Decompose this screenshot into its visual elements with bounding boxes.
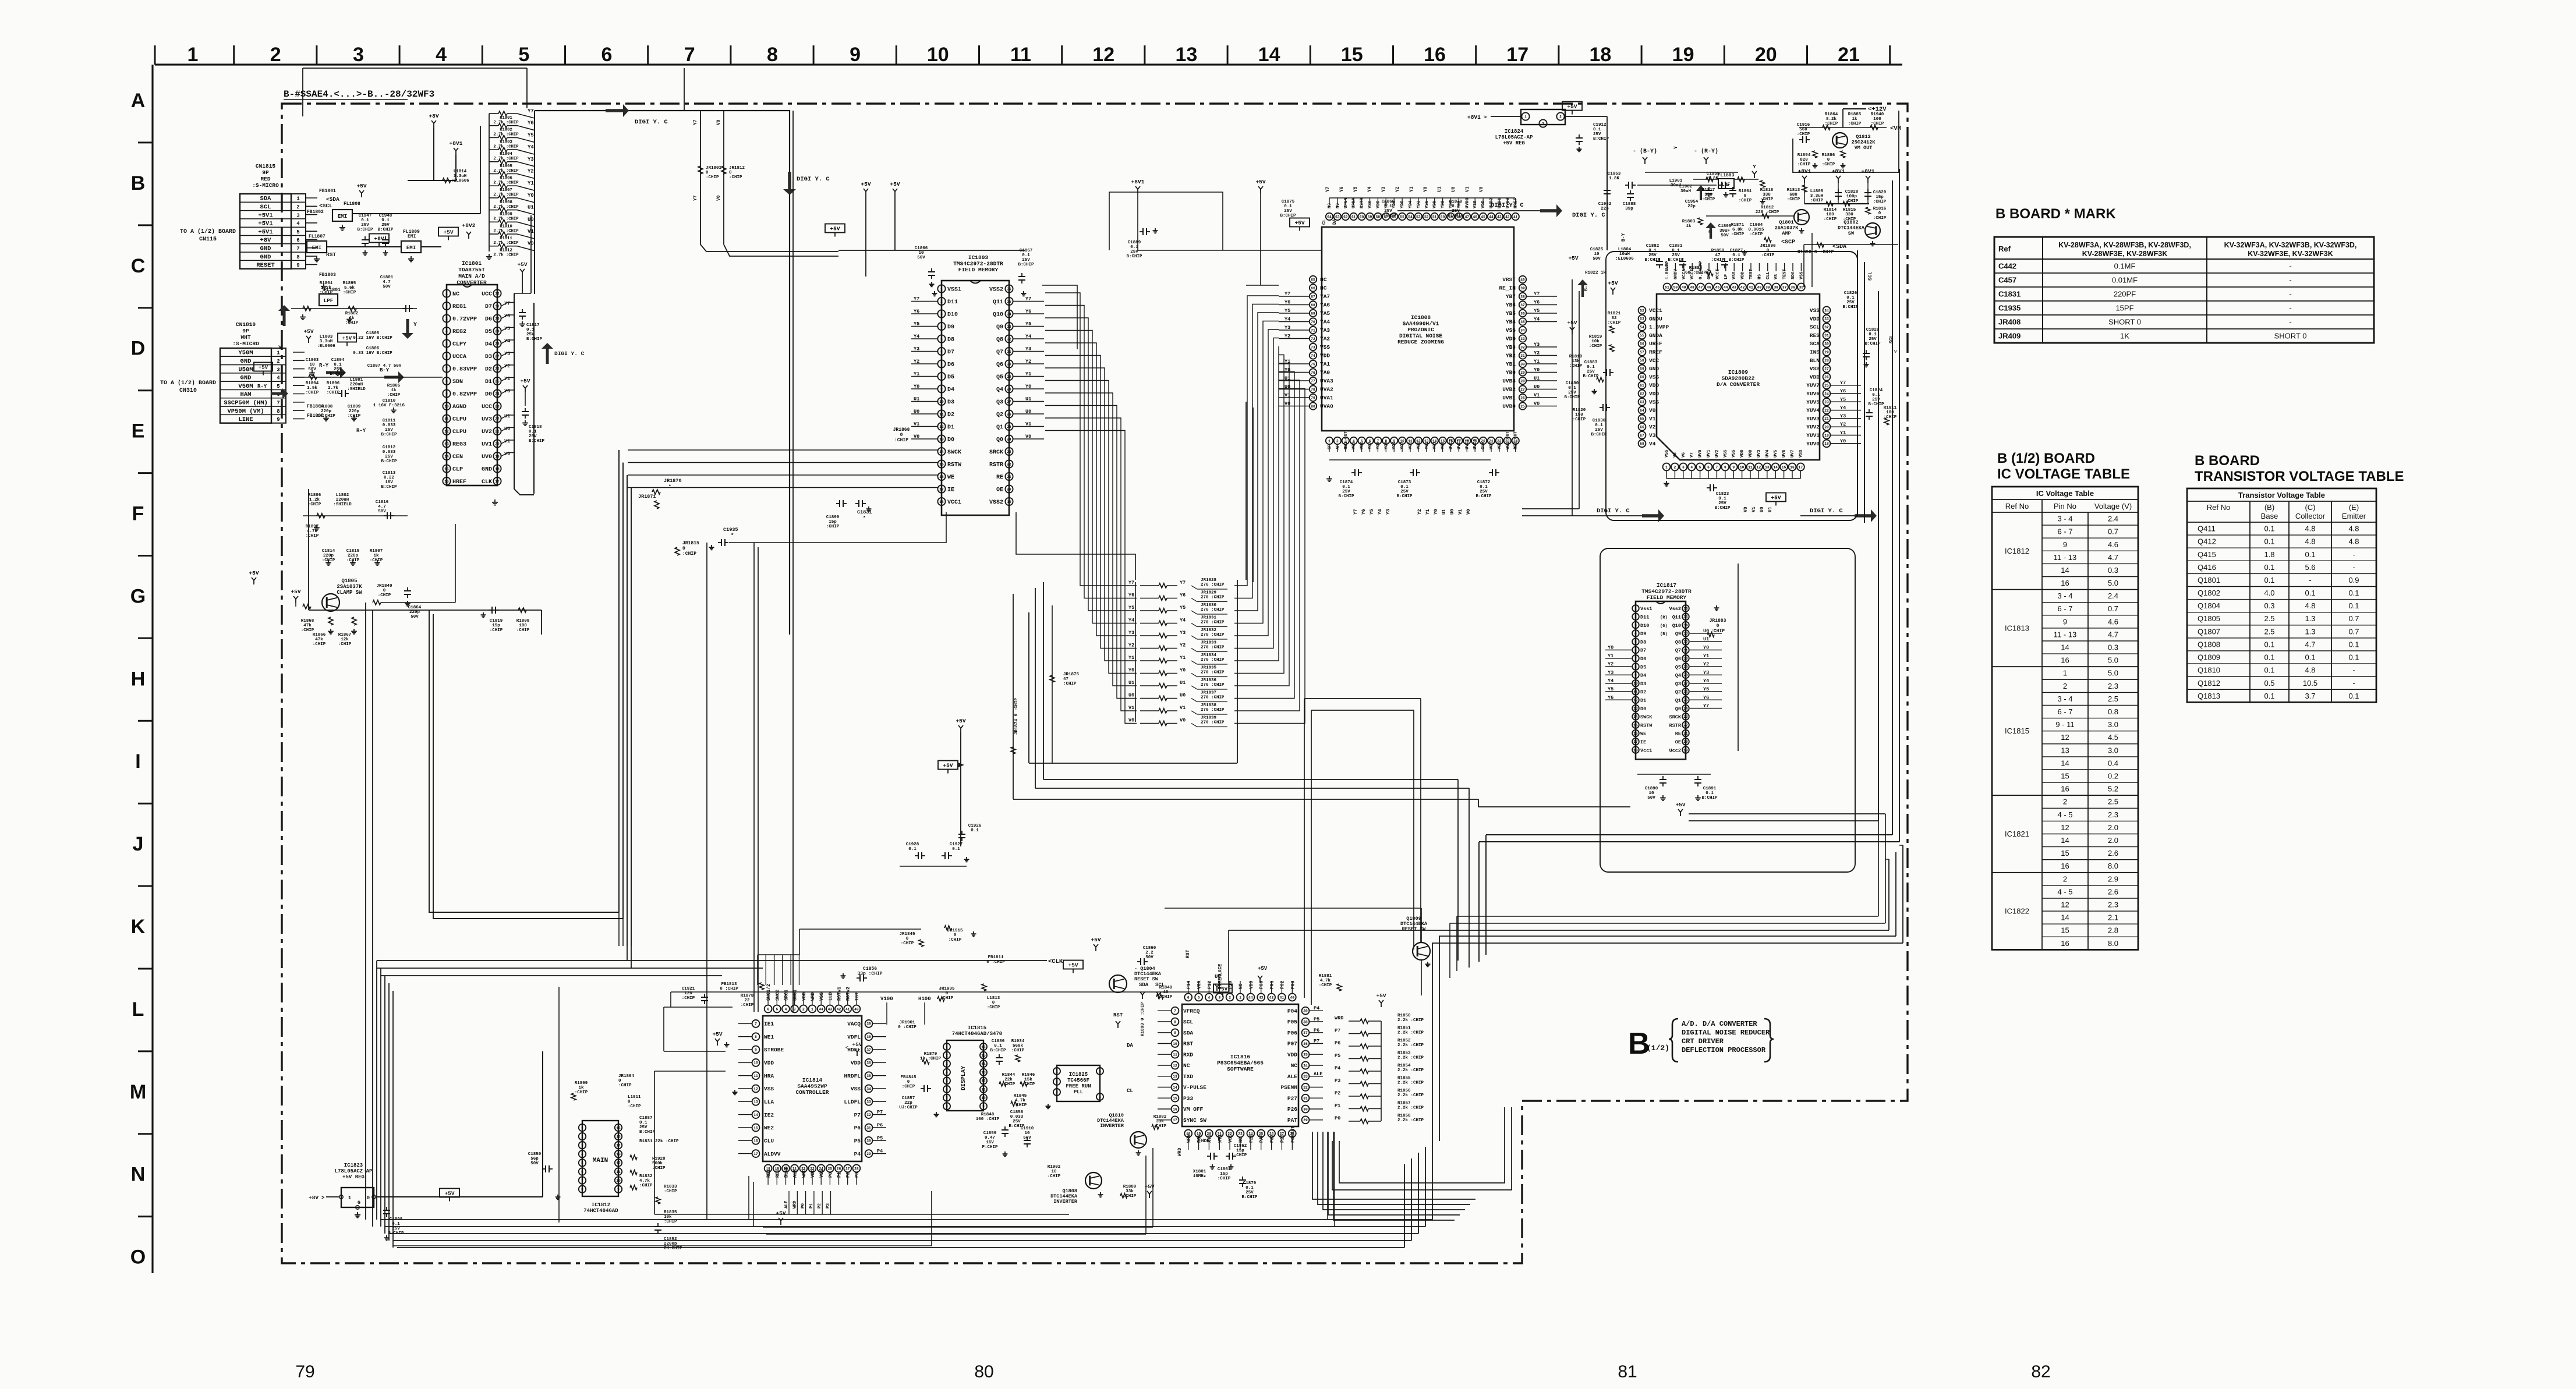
svg-text:R1808: R1808 xyxy=(516,619,530,623)
svg-text:P20: P20 xyxy=(1249,1134,1254,1143)
svg-text:0.72VPP: 0.72VPP xyxy=(452,317,477,323)
svg-text:80: 80 xyxy=(1311,405,1315,409)
svg-text:10: 10 xyxy=(939,400,944,404)
svg-text:33: 33 xyxy=(1303,1075,1308,1079)
svg-text:R1804: R1804 xyxy=(306,381,319,386)
svg-text:4: 4 xyxy=(445,329,448,334)
svg-text:FIELD MEMORY: FIELD MEMORY xyxy=(958,267,999,273)
svg-text:2: 2 xyxy=(946,1054,948,1058)
svg-text:64: 64 xyxy=(1640,409,1644,413)
svg-text:13: 13 xyxy=(753,1100,758,1104)
svg-text:C1801: C1801 xyxy=(380,275,394,280)
svg-text:P4: P4 xyxy=(877,1149,883,1154)
svg-text:4: 4 xyxy=(785,1007,787,1011)
svg-text:Y1: Y1 xyxy=(1608,653,1613,659)
svg-text:SCA: SCA xyxy=(1810,341,1820,347)
svg-text:24: 24 xyxy=(495,392,500,396)
svg-text:32: 32 xyxy=(1683,640,1688,644)
svg-text:Y4: Y4 xyxy=(1180,618,1186,623)
svg-text:Y0: Y0 xyxy=(1180,668,1186,674)
svg-text:11 - 13: 11 - 13 xyxy=(2054,630,2077,639)
svg-text:10: 10 xyxy=(1648,791,1654,796)
svg-text:28: 28 xyxy=(1007,387,1011,391)
svg-text:LINE: LINE xyxy=(238,416,253,423)
svg-text:40: 40 xyxy=(854,1007,859,1011)
svg-text:R1855: R1855 xyxy=(1397,1076,1411,1081)
svg-text:C1825: C1825 xyxy=(1590,247,1604,252)
svg-text:2: 2 xyxy=(1336,439,1339,443)
svg-text:VSS: VSS xyxy=(1352,441,1357,449)
svg-text:C1874: C1874 xyxy=(1340,480,1353,485)
svg-text:7: 7 xyxy=(1174,1009,1176,1014)
svg-text:C1889: C1889 xyxy=(1128,240,1141,245)
svg-text:D2: D2 xyxy=(1640,689,1646,695)
svg-text:P6: P6 xyxy=(854,1125,861,1131)
svg-text:47: 47 xyxy=(1465,215,1470,219)
svg-text::EL0606: :EL0606 xyxy=(451,179,469,183)
svg-text:13: 13 xyxy=(1173,1075,1177,1079)
svg-text::CHIP: :CHIP xyxy=(308,502,321,507)
svg-text:22: 22 xyxy=(1824,409,1829,413)
svg-text:U0: U0 xyxy=(1450,509,1455,515)
svg-text:12: 12 xyxy=(981,1079,986,1083)
svg-text:58: 58 xyxy=(1376,215,1381,219)
svg-text:CLPU: CLPU xyxy=(452,417,466,423)
svg-text:IC1825: IC1825 xyxy=(1069,1072,1088,1078)
svg-text:14: 14 xyxy=(2061,759,2069,767)
svg-text:P01: P01 xyxy=(1270,980,1275,989)
svg-text:C1808: C1808 xyxy=(320,405,333,409)
svg-text:Y0: Y0 xyxy=(1840,438,1846,444)
svg-text:U1: U1 xyxy=(1442,509,1447,515)
svg-text:DEFLECTION PROCESSOR: DEFLECTION PROCESSOR xyxy=(1682,1046,1766,1054)
svg-text:14: 14 xyxy=(753,1113,758,1117)
svg-text:2: 2 xyxy=(296,204,299,210)
svg-text:0.1: 0.1 xyxy=(2348,653,2359,662)
svg-text:51: 51 xyxy=(1432,215,1437,219)
svg-text:15: 15 xyxy=(1173,1097,1177,1101)
svg-text:Transistor Voltage Table: Transistor Voltage Table xyxy=(2238,491,2325,499)
svg-text:220p: 220p xyxy=(323,554,334,558)
svg-text:2.7k :CHIP: 2.7k :CHIP xyxy=(493,205,519,210)
svg-text:R1861: R1861 xyxy=(1739,189,1752,194)
svg-text:14: 14 xyxy=(2061,566,2069,575)
svg-text:7: 7 xyxy=(940,362,943,366)
svg-text:25V: 25V xyxy=(1718,501,1726,506)
svg-text:4.6: 4.6 xyxy=(2108,617,2118,626)
svg-text:0: 0 xyxy=(906,937,909,941)
svg-text:SSCP50M (HM): SSCP50M (HM) xyxy=(224,400,268,407)
svg-text:3: 3 xyxy=(581,1144,583,1148)
svg-text:UPCN: UPCN xyxy=(1344,198,1349,208)
svg-text:6 - 7: 6 - 7 xyxy=(2057,604,2072,613)
wire CLK bottom run xyxy=(377,961,1047,976)
svg-text:31: 31 xyxy=(495,304,500,309)
svg-text:C1954: C1954 xyxy=(1685,200,1699,204)
amplifier cluster Q1801 Q1802 right xyxy=(1693,164,1887,310)
svg-text:UVA0: UVA0 xyxy=(1320,403,1333,410)
svg-text:C1912: C1912 xyxy=(1593,123,1607,127)
svg-text:31: 31 xyxy=(1303,1097,1308,1101)
IC IC1815 74HCT4046AD DISPLAY xyxy=(899,984,1035,1156)
svg-text:+5V REG: +5V REG xyxy=(342,1174,365,1180)
svg-text:B:CHIP: B:CHIP xyxy=(1728,258,1745,263)
svg-text:L: L xyxy=(132,998,144,1021)
svg-text:52: 52 xyxy=(1424,215,1429,219)
svg-text:C1826: C1826 xyxy=(1844,291,1857,296)
svg-text:IE: IE xyxy=(1640,739,1646,745)
svg-text:Q1801: Q1801 xyxy=(2198,576,2220,584)
svg-text:0.1: 0.1 xyxy=(2305,550,2315,559)
svg-text:50V: 50V xyxy=(1647,796,1655,800)
svg-text:22: 22 xyxy=(1683,724,1688,728)
svg-text:IC1812: IC1812 xyxy=(2005,547,2029,555)
svg-text:1 16V F:3216: 1 16V F:3216 xyxy=(373,403,405,408)
svg-text:(E): (E) xyxy=(2349,503,2359,512)
svg-text:25V: 25V xyxy=(1593,132,1601,137)
svg-text:82: 82 xyxy=(1611,316,1617,321)
svg-text:C1890: C1890 xyxy=(1645,786,1658,791)
svg-text:9: 9 xyxy=(277,417,279,423)
svg-text:25: 25 xyxy=(828,1167,833,1171)
svg-text:R1850: R1850 xyxy=(1397,1014,1411,1018)
svg-text:<SCL: <SCL xyxy=(319,203,332,209)
svg-text:73: 73 xyxy=(1311,345,1315,349)
svg-text:RES: RES xyxy=(1810,332,1820,339)
svg-text:R1864: R1864 xyxy=(1825,112,1838,117)
wire harness controller to display runs xyxy=(654,992,1229,1234)
svg-text:Ref: Ref xyxy=(1998,245,2011,253)
svg-text:2.7k: 2.7k xyxy=(328,386,339,391)
svg-text:YA2: YA2 xyxy=(1320,336,1330,342)
svg-text:11: 11 xyxy=(1748,465,1753,469)
svg-text:15: 15 xyxy=(981,1054,986,1058)
svg-text:(B): (B) xyxy=(2264,503,2274,512)
svg-text:C1928: C1928 xyxy=(906,842,919,847)
svg-text:15k: 15k xyxy=(1024,1078,1032,1082)
svg-text:VDD: VDD xyxy=(1741,271,1746,279)
svg-text:+5V: +5V xyxy=(712,1031,722,1037)
svg-text:49: 49 xyxy=(1682,285,1686,289)
svg-text:37: 37 xyxy=(1782,285,1787,289)
filter cluster B-Y R-Y top right xyxy=(1568,146,1738,261)
svg-text:0.2: 0.2 xyxy=(2108,772,2118,781)
svg-text:WRN: WRN xyxy=(1187,1134,1192,1143)
IC IC1825 TC4566F free run PLL xyxy=(1046,1065,1104,1108)
svg-text:+5V: +5V xyxy=(830,226,840,232)
svg-text:16: 16 xyxy=(2061,579,2069,587)
svg-text:0: 0 xyxy=(729,171,732,175)
svg-text:UVB2: UVB2 xyxy=(1502,387,1516,393)
svg-text:C1926: C1926 xyxy=(968,824,982,828)
svg-text:25V: 25V xyxy=(1587,370,1595,374)
svg-text:59: 59 xyxy=(1640,367,1644,371)
svg-text:1.5k: 1.5k xyxy=(307,386,318,391)
svg-text:C1935: C1935 xyxy=(1998,304,2021,313)
svg-text:2: 2 xyxy=(277,359,279,364)
wire DIGI Y.C into IC1808 xyxy=(1397,202,1562,217)
wire harness center long verticals xyxy=(707,111,793,1220)
svg-text::CHIP: :CHIP xyxy=(345,321,359,325)
wire IC1814 bottom fanout xyxy=(393,1191,932,1246)
svg-text::CHIP: :CHIP xyxy=(706,175,719,180)
svg-text:44: 44 xyxy=(1489,215,1494,219)
svg-text:G: G xyxy=(358,1200,360,1206)
svg-text:1.05VPP: 1.05VPP xyxy=(1665,261,1670,279)
svg-text:+5V: +5V xyxy=(852,1041,862,1048)
svg-text:0.7: 0.7 xyxy=(2348,627,2359,636)
svg-text:7: 7 xyxy=(581,1179,583,1183)
svg-text:5.2: 5.2 xyxy=(2108,785,2118,793)
svg-text:B BOARD * MARK: B BOARD * MARK xyxy=(1995,206,2116,222)
svg-text::CHIP: :CHIP xyxy=(618,1083,632,1088)
svg-text:HREF: HREF xyxy=(1514,197,1519,208)
svg-text:2.7k :CHIP: 2.7k :CHIP xyxy=(493,121,519,125)
svg-text:17: 17 xyxy=(1799,465,1803,469)
svg-text:820: 820 xyxy=(1800,158,1808,162)
svg-text:G: G xyxy=(130,585,146,607)
svg-text:Base: Base xyxy=(2261,512,2278,520)
svg-text:Y3: Y3 xyxy=(1386,509,1391,515)
svg-text:SAA4952WP: SAA4952WP xyxy=(797,1083,827,1090)
svg-text:P04: P04 xyxy=(1287,1008,1297,1015)
svg-text:11: 11 xyxy=(753,1074,758,1078)
svg-text:2.2k :CHIP: 2.2k :CHIP xyxy=(1397,1056,1424,1061)
svg-text:YD2: YD2 xyxy=(1441,200,1446,208)
svg-text:CLK: CLK xyxy=(1481,441,1486,449)
svg-text:MAIN A/D: MAIN A/D xyxy=(458,273,485,279)
svg-text:HRA: HRA xyxy=(764,1073,774,1079)
svg-text:15p: 15p xyxy=(1236,1149,1244,1153)
svg-text:IE1: IE1 xyxy=(764,1021,774,1027)
svg-text:C1828: C1828 xyxy=(1845,190,1859,194)
svg-text:VDD: VDD xyxy=(1740,449,1745,458)
svg-text:UVD0: UVD0 xyxy=(1506,197,1510,208)
svg-text:0.1: 0.1 xyxy=(2305,653,2315,662)
svg-text:41: 41 xyxy=(1513,215,1518,219)
svg-text:JR1870: JR1870 xyxy=(664,478,682,484)
svg-text:2SA1037K: 2SA1037K xyxy=(337,584,362,590)
svg-text:Y0: Y0 xyxy=(528,193,534,199)
svg-text:Q1812: Q1812 xyxy=(1856,134,1871,140)
svg-text:39p: 39p xyxy=(1625,207,1633,211)
svg-text:Y0: Y0 xyxy=(1423,186,1428,192)
svg-text:PAP: PAP xyxy=(1259,1134,1265,1143)
svg-text:R1816: R1816 xyxy=(1873,207,1887,211)
svg-text:48: 48 xyxy=(1690,285,1694,289)
svg-text:JR1890: JR1890 xyxy=(1760,244,1776,249)
svg-text:53: 53 xyxy=(1640,317,1644,321)
svg-text:0.1: 0.1 xyxy=(2264,576,2274,584)
svg-text:C1899: C1899 xyxy=(826,515,840,520)
svg-text:D6: D6 xyxy=(947,362,954,368)
svg-text:Y3: Y3 xyxy=(1608,669,1613,675)
svg-text:HRDFL: HRDFL xyxy=(844,1073,861,1079)
svg-text:D0: D0 xyxy=(1640,706,1646,712)
ruler top border xyxy=(155,44,1902,66)
svg-text:Q3: Q3 xyxy=(1675,681,1681,687)
svg-text:P7: P7 xyxy=(1335,1028,1340,1034)
svg-text::CHIP: :CHIP xyxy=(682,996,695,1001)
svg-text:P0: P0 xyxy=(828,1172,833,1178)
svg-text:2.5: 2.5 xyxy=(2264,614,2274,623)
wire loop field memory top right xyxy=(1042,192,1223,349)
svg-text:P0: P0 xyxy=(1335,1115,1340,1121)
svg-text:H: H xyxy=(131,668,146,690)
svg-text:17: 17 xyxy=(1173,1118,1177,1122)
svg-text:YUV6: YUV6 xyxy=(1806,391,1820,397)
svg-text:0.0015: 0.0015 xyxy=(1748,228,1764,232)
svg-text:39uH: 39uH xyxy=(1680,189,1691,194)
svg-text:A/D. D/A CONVERTER: A/D. D/A CONVERTER xyxy=(1682,1020,1757,1028)
svg-text:7: 7 xyxy=(1634,657,1637,661)
svg-text:C1927: C1927 xyxy=(950,842,963,847)
svg-text:UC: UC xyxy=(1215,974,1221,980)
svg-text:3.7: 3.7 xyxy=(2305,692,2315,700)
svg-text:2.3: 2.3 xyxy=(2108,810,2118,819)
svg-text:WE1: WE1 xyxy=(764,1034,774,1040)
svg-text:11: 11 xyxy=(1010,44,1031,66)
svg-text:39: 39 xyxy=(1303,1009,1308,1014)
svg-text:Y3: Y3 xyxy=(1180,630,1186,636)
svg-text:0.3: 0.3 xyxy=(2108,643,2118,652)
svg-text:3: 3 xyxy=(940,312,943,316)
svg-text::CHIP: :CHIP xyxy=(343,290,356,295)
svg-text:25V: 25V xyxy=(1869,337,1877,342)
svg-text:0.7: 0.7 xyxy=(2108,527,2118,536)
svg-text:JR1812: JR1812 xyxy=(729,166,745,171)
svg-text:Q0: Q0 xyxy=(1675,706,1681,712)
svg-text:+5V: +5V xyxy=(303,328,313,335)
wire top bus link xyxy=(684,68,685,111)
svg-text:B-#SSAE4.<...>-B..-28/32WF3: B-#SSAE4.<...>-B..-28/32WF3 xyxy=(284,89,434,100)
svg-text:Q1801: Q1801 xyxy=(1779,219,1794,225)
svg-text:Y6: Y6 xyxy=(1128,593,1134,598)
svg-text:YB2: YB2 xyxy=(1506,353,1516,359)
svg-text:VFREQ: VFREQ xyxy=(1183,1008,1200,1015)
svg-text:GND: GND xyxy=(240,375,252,382)
svg-text:34: 34 xyxy=(1007,312,1011,316)
svg-text:0: 0 xyxy=(1744,194,1747,199)
svg-text:WE2_OUT: WE2_OUT xyxy=(1506,431,1510,449)
svg-text:17: 17 xyxy=(939,487,944,491)
svg-text:VSS: VSS xyxy=(1810,307,1820,314)
svg-text:R1803: R1803 xyxy=(1682,219,1696,224)
svg-text:Y4: Y4 xyxy=(1367,186,1372,192)
svg-text:Q0: Q0 xyxy=(996,437,1003,444)
svg-text:Y5: Y5 xyxy=(1534,308,1540,314)
svg-text::CHIP: :CHIP xyxy=(338,642,352,647)
svg-text:FL1807: FL1807 xyxy=(309,234,325,239)
svg-text:CN1810: CN1810 xyxy=(236,321,256,328)
svg-text:1k: 1k xyxy=(373,554,379,558)
svg-text:6 - 7: 6 - 7 xyxy=(2057,707,2072,716)
svg-text:Y3: Y3 xyxy=(528,157,534,162)
svg-text:50V: 50V xyxy=(1721,233,1729,238)
svg-text:9: 9 xyxy=(982,1105,985,1109)
svg-text:12k: 12k xyxy=(341,637,349,642)
wire bottom mid risers xyxy=(749,1132,1335,1227)
svg-text:C1881: C1881 xyxy=(1669,244,1683,249)
svg-text:2.2: 2.2 xyxy=(1145,951,1153,955)
svg-text:LPF: LPF xyxy=(324,298,333,304)
svg-text:47k: 47k xyxy=(303,623,312,628)
svg-text:C1866: C1866 xyxy=(915,246,928,251)
svg-text:VDD: VDD xyxy=(811,1169,816,1178)
svg-text:VDD: VDD xyxy=(851,1060,861,1066)
svg-text:VACQ: VACQ xyxy=(847,1021,861,1027)
svg-text:U1: U1 xyxy=(1180,680,1186,686)
svg-text:UVB1: UVB1 xyxy=(1502,395,1516,401)
svg-text:R1802: R1802 xyxy=(345,311,359,316)
svg-text:CLAMP SW: CLAMP SW xyxy=(337,590,362,596)
svg-text:B:CHIP: B:CHIP xyxy=(1583,374,1599,379)
svg-text:0.33 16V B:CHIP: 0.33 16V B:CHIP xyxy=(353,351,392,356)
svg-text:35: 35 xyxy=(1303,1053,1308,1057)
svg-text::CHIP: :CHIP xyxy=(327,391,340,395)
svg-text:C1935: C1935 xyxy=(723,527,738,533)
svg-text:R1866: R1866 xyxy=(313,633,326,637)
svg-text:D3: D3 xyxy=(485,354,492,360)
svg-text:FB1813: FB1813 xyxy=(721,982,737,987)
svg-text:UVC0: UVC0 xyxy=(1473,438,1478,449)
svg-text:Y6: Y6 xyxy=(528,121,534,126)
wire risers IC1816 to top xyxy=(1304,699,1421,1005)
transistor Q1804 reset SW xyxy=(986,937,1173,1028)
svg-text:8.2k: 8.2k xyxy=(1826,117,1837,122)
svg-text:15: 15 xyxy=(1341,44,1363,66)
IC IC1824 +5V regulator xyxy=(1467,102,1609,251)
svg-text:9: 9 xyxy=(2063,540,2067,549)
svg-text:680: 680 xyxy=(1789,193,1797,197)
svg-text:D4: D4 xyxy=(947,387,954,394)
svg-text:34: 34 xyxy=(1683,623,1688,628)
svg-text:44: 44 xyxy=(1248,995,1253,1000)
svg-text:B:CHIP: B:CHIP xyxy=(1591,433,1607,437)
svg-text:0.83VPP: 0.83VPP xyxy=(452,367,477,373)
svg-text:R-Y: R-Y xyxy=(257,384,267,389)
svg-text:4.8: 4.8 xyxy=(2305,525,2315,533)
svg-text:Y2: Y2 xyxy=(1703,661,1709,667)
svg-text:VDD: VDD xyxy=(1376,200,1381,208)
svg-text:25V: 25V xyxy=(1846,300,1855,305)
svg-text:1: 1 xyxy=(187,44,199,66)
svg-text:IC1824: IC1824 xyxy=(1505,129,1524,134)
svg-text:9: 9 xyxy=(296,263,299,268)
svg-text:560k: 560k xyxy=(652,1161,663,1166)
svg-text:33: 33 xyxy=(866,1100,871,1104)
wire DIGI Y.C top bus xyxy=(535,104,830,635)
svg-text:B:CHIP: B:CHIP xyxy=(1448,214,1464,218)
svg-text:R1908: R1908 xyxy=(500,200,512,205)
svg-text:32: 32 xyxy=(866,1113,871,1117)
svg-text:18: 18 xyxy=(495,467,500,471)
svg-text:2SA1037K: 2SA1037K xyxy=(1775,225,1799,231)
svg-text:R1859: R1859 xyxy=(1711,249,1725,253)
svg-text:17: 17 xyxy=(495,480,500,484)
svg-text:SRCK: SRCK xyxy=(1669,714,1682,720)
IC IC1823 L78L05 +5V REG xyxy=(309,987,559,1240)
svg-text:Y3: Y3 xyxy=(1840,413,1846,419)
svg-text:43: 43 xyxy=(1732,285,1736,289)
svg-text:SDA: SDA xyxy=(1791,271,1796,279)
svg-text:220p: 220p xyxy=(409,610,420,615)
svg-text:35: 35 xyxy=(1799,285,1804,289)
svg-text:46: 46 xyxy=(1707,285,1711,289)
svg-text:VM OFF: VM OFF xyxy=(1183,1106,1204,1112)
svg-text:23: 23 xyxy=(1238,1132,1243,1136)
svg-text:2.7k :CHIP: 2.7k :CHIP xyxy=(493,144,519,149)
